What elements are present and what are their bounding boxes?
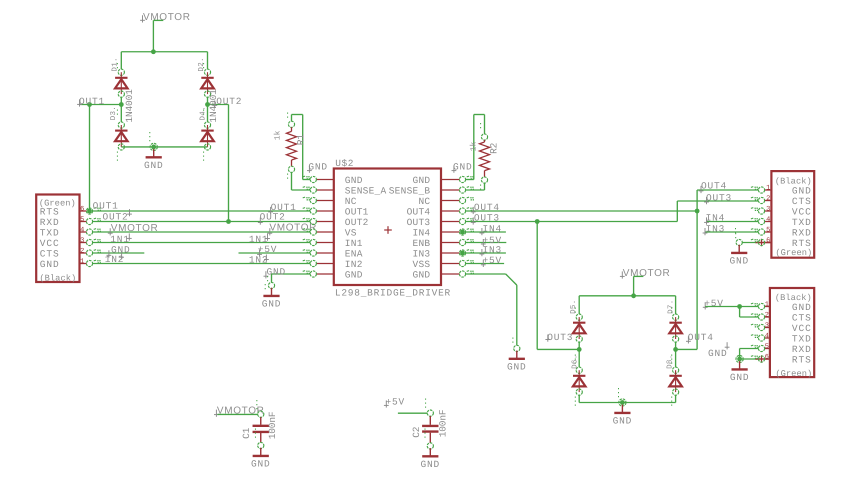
svg-text:OUT4: OUT4 <box>688 332 714 343</box>
label R2 name <box>488 142 499 154</box>
junction D1-D3 <box>119 102 124 107</box>
svg-text:GND: GND <box>40 259 60 270</box>
svg-text:100nF: 100nF <box>267 411 278 439</box>
svg-text:OUT4: OUT4 <box>407 206 431 217</box>
svg-text:C2: C2 <box>411 426 422 438</box>
junction D5-D6 <box>577 347 582 352</box>
label C2 value 100nF <box>438 409 449 437</box>
pin 10 U$2 left (GND) <box>303 271 334 278</box>
label pin name GND top-right connector <box>792 185 812 196</box>
wire net OUT1 row <box>92 210 310 212</box>
svg-text:2: 2 <box>80 247 84 255</box>
dots near RXD pin <box>735 228 737 235</box>
label pin name OUT3 right <box>407 217 431 228</box>
svg-text:NC: NC <box>418 196 430 207</box>
label net OUT3 (IC side) <box>471 213 500 225</box>
svg-text:4: 4 <box>80 226 84 234</box>
svg-text:D2.: D2. <box>197 57 206 71</box>
label D1 value 1N4001 <box>124 89 135 123</box>
pin number 2 bottom-right connector <box>765 311 769 319</box>
pin 3 U$2 left (NC) <box>303 197 334 203</box>
svg-text:GND: GND <box>729 256 749 267</box>
wire R1 to SENSE_A <box>292 172 311 190</box>
label pin name TXD bottom-right connector <box>792 333 812 344</box>
label pin name SENSE_B right <box>389 185 431 196</box>
wire net +5V stub (VSS) <box>465 263 504 265</box>
svg-text:RTS: RTS <box>792 354 812 365</box>
svg-text:D1.: D1. <box>112 57 120 71</box>
svg-text:D8.: D8. <box>665 354 674 368</box>
svg-text:1: 1 <box>765 301 769 309</box>
wire IN3 to RXD pin <box>705 231 759 233</box>
label pin name OUT2 left <box>345 217 369 228</box>
wire node OUT1 stub <box>80 104 122 106</box>
ground IC left pin10 <box>262 288 282 310</box>
label C1 value 100nF <box>267 411 278 439</box>
label net OUT1 (bridge1) <box>77 96 105 107</box>
pin 6 U$2 left (VS) <box>303 229 334 235</box>
pin 1 top-right connector (GND) <box>751 187 772 193</box>
svg-text:3: 3 <box>765 322 769 330</box>
pin number 3 top-right connector <box>766 205 770 213</box>
wire rail to D5 <box>578 296 580 314</box>
label pin name GND right <box>413 269 431 280</box>
wire rail to D7 <box>675 296 677 314</box>
connector X3 (bottom right, Black/Green) <box>770 288 814 377</box>
resistor R1 1k <box>287 113 297 182</box>
diode D2 <box>201 63 214 97</box>
supply VMOTOR top <box>140 12 191 52</box>
svg-text:5: 5 <box>765 343 769 351</box>
svg-text:4: 4 <box>766 216 770 224</box>
label pin name OUT4 right <box>407 206 431 217</box>
pin U$2 right (OUT3) <box>441 218 474 224</box>
label pin name GND bottom-right connector <box>792 302 812 313</box>
svg-text:1k: 1k <box>469 141 478 151</box>
label net OUT2 (bridge1) <box>212 96 242 108</box>
label pin name VCC bottom-right connector <box>792 323 812 334</box>
label (Green) left <box>39 198 76 208</box>
wire net OUT4 row <box>465 210 697 212</box>
svg-text:GND: GND <box>708 348 728 359</box>
svg-text:GND: GND <box>792 302 812 313</box>
diode D4 <box>201 110 214 150</box>
pin number 4 bottom-right connector <box>765 332 769 340</box>
diode D7 <box>669 308 682 343</box>
label L298_BRIDGE_DRIVER <box>335 287 451 298</box>
pin U$2 right (IN3) <box>441 250 474 257</box>
svg-text:R2: R2 <box>488 142 499 154</box>
pin U$2 right (IN4) <box>441 229 474 235</box>
pin 5 left connector (RXD) <box>80 218 102 224</box>
wire node to D4 <box>207 105 209 122</box>
junction D2-D4 <box>205 102 210 107</box>
label pin name GND left <box>345 175 363 186</box>
op-amp U$2 L298_BRIDGE_DRIVER box <box>334 169 441 286</box>
svg-text:1: 1 <box>766 184 770 192</box>
wires diodes to bottom rail <box>579 395 675 402</box>
svg-text:CTS: CTS <box>792 196 812 207</box>
pin 3 bottom-right connector (VCC) <box>751 324 770 331</box>
junction bridge2 rail / VMOTOR <box>631 293 636 298</box>
svg-text:OUT2: OUT2 <box>216 96 242 107</box>
supply VMOTOR at C1 <box>214 406 265 417</box>
pin 2 bottom-right connector (CTS) <box>751 314 770 321</box>
wire net VMOTOR row <box>92 231 310 233</box>
wire net +5V stub (ENB) <box>465 242 506 244</box>
svg-text:L298_BRIDGE_DRIVER: L298_BRIDGE_DRIVER <box>335 287 451 298</box>
pin 4 left connector (TXD) <box>80 229 102 235</box>
label net 1N1 (connector side) <box>110 233 132 244</box>
wire D2 to node OUT2 <box>207 97 209 104</box>
pin U$2 right (SENSE_B) <box>441 187 474 193</box>
wire net 1N1 row <box>92 242 310 244</box>
svg-text:1N2: 1N2 <box>249 255 269 266</box>
pin number 3 bottom-right connector <box>765 322 769 330</box>
supply VMOTOR bottom <box>620 268 671 296</box>
pin number 5 bottom-right connector <box>765 343 769 351</box>
label net GND (pin10 left) <box>264 267 287 279</box>
svg-text:SENSE_A: SENSE_A <box>345 185 387 196</box>
svg-text:RXD: RXD <box>40 217 60 228</box>
wire bridge1 top rail <box>121 51 207 53</box>
wire net OUT3 row <box>465 221 677 223</box>
diode D1 <box>115 63 128 97</box>
pin 2 U$2 left (SENSE_A) <box>303 187 334 193</box>
label pin name VCC left connector <box>40 238 60 249</box>
svg-text:OUT3: OUT3 <box>474 213 500 224</box>
pin 2 top-right connector (CTS) <box>751 197 772 203</box>
label pin name RTS bottom-right connector <box>792 354 812 365</box>
wire node to D6 <box>578 349 580 367</box>
capacitor C2 100nF <box>422 399 438 450</box>
label R1 value 1k <box>273 130 282 140</box>
diode D6 <box>573 355 586 396</box>
pin 4 top-right connector (TXD) <box>751 218 772 224</box>
pin number 6 top-right connector <box>766 237 770 245</box>
svg-text:D4.: D4. <box>199 106 207 120</box>
svg-text:5: 5 <box>766 226 770 234</box>
pin number 5 left connector <box>80 216 84 224</box>
supply GND at IC pin1 left <box>307 161 328 173</box>
svg-text:GND: GND <box>267 267 287 278</box>
svg-text:GND: GND <box>730 372 750 383</box>
label pin name VS left <box>345 227 357 238</box>
svg-text:ENB: ENB <box>413 238 431 249</box>
svg-text:IN4: IN4 <box>413 227 431 238</box>
wire net 1N2 row <box>92 263 310 265</box>
pin 5 bottom-right connector (RXD) <box>751 345 770 352</box>
label net 1N2 (IC side) <box>249 255 269 266</box>
label pin name NC right <box>418 196 430 207</box>
svg-text:OUT2: OUT2 <box>103 211 129 222</box>
pin 5 top-right connector (RXD) <box>751 229 772 235</box>
label D7 <box>667 299 675 313</box>
pin number 3 left connector <box>80 237 84 245</box>
svg-text:6: 6 <box>80 205 84 213</box>
svg-text:100nF: 100nF <box>438 409 449 437</box>
pin line through RTS circle bottom-right <box>755 355 770 362</box>
label net OUT4 (bridge2) <box>686 332 714 343</box>
wire node to D8 <box>675 349 677 367</box>
svg-text:IN3: IN3 <box>706 223 726 234</box>
label pin name ENA left <box>345 248 363 259</box>
wire bridge1 bottom rail <box>121 146 207 148</box>
pin number 1 top-right connector <box>766 184 770 192</box>
wire +5V to GND pin <box>705 306 758 308</box>
wire net GND stub (CTS) <box>92 252 144 254</box>
svg-text:C1: C1 <box>241 427 252 439</box>
GND supply circle at RTS <box>736 233 743 246</box>
bridge1 GND pin junction <box>150 132 157 150</box>
wire net +5V stub (ENA) <box>239 252 311 254</box>
label (Green) bottom-right <box>775 369 812 379</box>
wire D7 to node OUT4 <box>675 342 677 349</box>
pin 7 U$2 left (IN1) <box>303 239 334 245</box>
pin number 1 bottom-right connector <box>765 301 769 309</box>
label pin name VCC top-right connector <box>792 206 812 217</box>
svg-text:OUT4: OUT4 <box>474 202 500 213</box>
svg-text:GND: GND <box>345 269 363 280</box>
label pin name ENB right <box>413 238 431 249</box>
label net IN4 (IC side) <box>480 223 503 235</box>
dots bridge2 bottom <box>575 397 671 407</box>
label net 1N2 (connector side) <box>105 252 125 265</box>
bridge2 GND pin junction <box>619 388 627 406</box>
label pin name TXD left connector <box>40 227 60 238</box>
svg-text:1: 1 <box>80 258 84 266</box>
pin U$2 right (NC) <box>441 197 474 203</box>
svg-text:D6.: D6. <box>570 354 579 368</box>
label pin name GND right <box>413 175 431 186</box>
ground C2 <box>421 448 441 470</box>
label net VMOTOR (IC side) <box>267 223 317 236</box>
svg-text:IN4: IN4 <box>706 213 726 224</box>
label net GND (bottom-right connector) <box>708 342 730 359</box>
svg-text:D3.: D3. <box>109 106 118 120</box>
svg-text:3: 3 <box>80 237 84 245</box>
pin 6 left connector (RTS) <box>80 208 102 214</box>
svg-text:IN3: IN3 <box>413 248 431 259</box>
pin 8 U$2 left (ENA) <box>303 250 334 257</box>
connector X2 (top right, Black/Green) <box>771 171 814 258</box>
label pin name RXD left connector <box>40 217 60 228</box>
wire OUT4 to GND pin <box>697 189 759 191</box>
svg-text:VCC: VCC <box>792 206 812 217</box>
pin 3 top-right connector (VCC) <box>751 208 772 214</box>
svg-text:TXD: TXD <box>792 333 812 344</box>
resistor R2 1k <box>480 123 490 192</box>
svg-text:GND: GND <box>453 161 473 172</box>
wire bridge2 bottom rail <box>579 402 675 404</box>
junction OUT4 + vertical <box>695 190 700 349</box>
label net 1N1 (IC side) <box>249 234 270 246</box>
pin 6 top-right connector (RTS) <box>751 239 772 245</box>
pin U$2 right (VSS) <box>441 260 474 267</box>
pin number 2 left connector <box>80 247 84 255</box>
ground at top-right connector <box>729 245 749 267</box>
connector X1 (left, Green/Black) <box>36 195 79 283</box>
svg-text:5: 5 <box>80 216 84 224</box>
label net +5V (ENB row) <box>481 235 502 246</box>
svg-text:IN4: IN4 <box>483 223 503 234</box>
svg-text:2: 2 <box>765 311 769 319</box>
svg-text:2: 2 <box>766 195 770 203</box>
junction + wire OUT3 down <box>535 219 540 349</box>
svg-text:VCC: VCC <box>40 238 60 249</box>
wire IC GND pin10 left <box>272 274 311 282</box>
wire net IN3 stub <box>465 252 506 254</box>
wire VMOTOR to C1 <box>217 413 258 415</box>
label D6 <box>570 354 579 368</box>
svg-text:RXD: RXD <box>792 344 812 355</box>
svg-text:GND: GND <box>613 416 633 427</box>
label pin name CTS left connector <box>40 248 60 259</box>
pin 4 U$2 left (OUT1) <box>303 208 334 214</box>
svg-text:D5.: D5. <box>570 299 578 313</box>
diode D5 <box>573 308 586 343</box>
label C1 name <box>241 427 252 439</box>
label (Black) left <box>39 273 76 283</box>
wire IC GND pin1 to R1 <box>292 115 311 180</box>
wire +5V to C2 <box>398 412 427 414</box>
wire OUT3 to bridge2 <box>537 348 579 350</box>
label net +5V (VSS row) <box>481 255 502 267</box>
dots below D4 <box>203 152 205 162</box>
label pin name NC left <box>345 196 357 207</box>
label D1 <box>112 57 120 71</box>
svg-text:1N4001: 1N4001 <box>208 89 219 123</box>
label (Black) bottom-right <box>775 293 812 303</box>
ground IC right pin10 <box>507 351 527 373</box>
svg-text:6: 6 <box>765 353 769 361</box>
svg-text:U$2: U$2 <box>335 158 354 169</box>
label pin name CTS bottom-right connector <box>792 312 812 323</box>
label net OUT2 (IC side) <box>258 211 286 224</box>
supply GND at IC pin1 right <box>452 161 473 173</box>
wire D5 to node OUT3 <box>578 342 580 349</box>
pin U$2 right (ENB) <box>441 239 474 245</box>
label (Black) top-right <box>775 176 812 186</box>
svg-text:GND: GND <box>144 160 164 171</box>
label net OUT4 (IC side) <box>471 202 500 214</box>
svg-text:OUT3: OUT3 <box>706 193 732 204</box>
wire IC GND pin1 right to R2 <box>465 115 484 180</box>
svg-text:SENSE_B: SENSE_B <box>389 185 431 196</box>
label D2 value 1N4001 <box>208 89 219 123</box>
svg-text:6: 6 <box>766 237 770 245</box>
svg-text:IN1: IN1 <box>345 238 363 249</box>
label net VMOTOR (connector side) <box>108 223 159 235</box>
svg-text:GND: GND <box>421 459 441 470</box>
capacitor C1 100nF <box>253 400 269 449</box>
pin number 6 bottom-right connector <box>765 353 769 361</box>
label R1 name <box>295 134 306 146</box>
supply +5V at C2 <box>384 396 405 407</box>
label net OUT4 (connector side) <box>699 180 727 193</box>
pin 4 bottom-right connector (TXD) <box>751 335 770 342</box>
label pin name IN3 right <box>413 248 431 259</box>
label net OUT2 (connector side) <box>103 209 132 222</box>
label net OUT3 (connector side) <box>704 193 732 205</box>
svg-text:VCC: VCC <box>792 323 812 334</box>
svg-text:GND: GND <box>262 299 282 310</box>
junction D7-D8 <box>673 347 678 352</box>
pin 2 left connector (CTS) <box>80 250 102 257</box>
svg-text:TXD: TXD <box>792 217 812 228</box>
ground C1 <box>251 448 271 470</box>
label net OUT3 (bridge2) <box>545 332 573 343</box>
pin U$2 right (GND) <box>441 271 474 278</box>
label C2 name <box>411 426 422 438</box>
pin U$2 right (GND) <box>441 176 474 182</box>
diode D3 <box>115 110 128 150</box>
svg-text:NC: NC <box>345 196 357 207</box>
svg-text:VMOTOR: VMOTOR <box>143 12 191 23</box>
svg-text:RTS: RTS <box>792 238 812 249</box>
svg-text:(Black): (Black) <box>39 273 76 283</box>
wire node to D3 <box>120 105 122 122</box>
label pin name TXD top-right connector <box>792 217 812 228</box>
pin circle GND drop right <box>513 338 520 352</box>
svg-text:VMOTOR: VMOTOR <box>623 268 671 279</box>
svg-text:VMOTOR: VMOTOR <box>269 223 317 234</box>
wire R2 to SENSE_B <box>465 183 484 190</box>
label pin name IN4 right <box>413 227 431 238</box>
label net OUT1 (connector side) <box>93 200 119 211</box>
svg-text:OUT1: OUT1 <box>345 206 369 217</box>
svg-text:OUT2: OUT2 <box>345 217 369 228</box>
label R2 value 1k <box>469 141 478 151</box>
label net IN3 (connector side) <box>703 223 726 235</box>
label pin name OUT1 left <box>345 206 369 217</box>
wire GND to RXD pin <box>740 349 759 360</box>
svg-text:1k: 1k <box>273 130 282 140</box>
svg-text:OUT1: OUT1 <box>79 96 105 107</box>
label D8 <box>665 354 674 368</box>
svg-text:+5V: +5V <box>258 244 278 255</box>
label pin name RXD top-right connector <box>792 227 812 238</box>
wire D1 to node OUT1 <box>120 97 122 104</box>
junction + wire OUT1 down to RTS <box>87 102 92 211</box>
pin circle GND drop left <box>265 276 274 291</box>
svg-text:GND: GND <box>413 175 431 186</box>
ground bridge2 <box>613 405 633 427</box>
svg-text:GND: GND <box>792 185 812 196</box>
svg-text:IN2: IN2 <box>345 259 363 270</box>
dots below D3 <box>116 152 118 162</box>
wire net IN4 stub <box>465 231 506 233</box>
label pin name IN1 left <box>345 238 363 249</box>
svg-text:GND: GND <box>413 269 431 280</box>
pin number 6 left connector <box>80 205 84 213</box>
svg-text:R1: R1 <box>295 134 306 146</box>
ground bridge1 <box>144 149 164 171</box>
label pin name RTS left connector <box>40 206 60 217</box>
svg-text:1N4001: 1N4001 <box>124 89 135 123</box>
pin number 5 top-right connector <box>766 226 770 234</box>
label pin name IN2 left <box>345 259 363 270</box>
wire node OUT2 to RXD row <box>208 105 229 222</box>
svg-text:D7.: D7. <box>667 299 675 313</box>
pin 1 U$2 left (GND) <box>303 176 334 182</box>
wire rail to D2 <box>207 52 209 69</box>
svg-text:RTS: RTS <box>40 206 60 217</box>
svg-text:VS: VS <box>345 227 357 238</box>
wire OUT3 to CTS pin <box>677 201 758 222</box>
svg-text:GND: GND <box>308 161 328 172</box>
junction +5V + wire to CTS pin <box>737 304 758 317</box>
